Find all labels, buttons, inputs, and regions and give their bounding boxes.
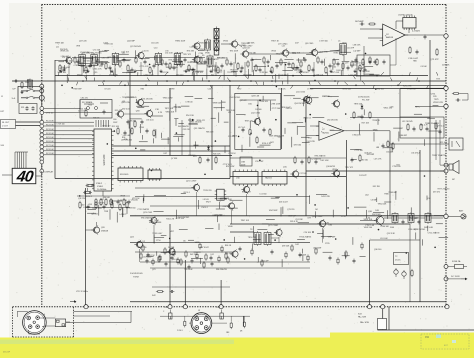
label scatter 211 (384, 194, 389, 196)
label bm11 (341, 216, 346, 218)
label scatter 106 (271, 104, 281, 106)
svg-text:C94 2SC945: C94 2SC945 (229, 97, 240, 99)
resistor BB25 (173, 250, 175, 257)
capacitor chain C148 (304, 58, 307, 63)
junction dot 247 (309, 114, 311, 116)
label t8 (250, 229, 253, 231)
resistor R72 (131, 127, 133, 135)
label scatter 127 (397, 165, 400, 167)
svg-text:CT85: CT85 (325, 243, 330, 245)
diode D4 (361, 104, 364, 110)
label q28 (288, 216, 323, 219)
svg-text:L43 472: L43 472 (120, 214, 127, 216)
svg-text:C60: C60 (113, 119, 116, 121)
wire seg 137 (284, 128, 286, 134)
svg-text:PA+ S/W: PA+ S/W (360, 321, 370, 324)
label scatter 147 (321, 196, 330, 198)
label scatter 188 (299, 236, 311, 239)
svg-text:Q8 C945: Q8 C945 (305, 43, 314, 45)
label scatter 42 (333, 67, 336, 69)
svg-text:R57 10K: R57 10K (362, 123, 370, 125)
wire seg 65 (99, 50, 107, 52)
wire y240 right (370, 239, 421, 241)
label scatter 79 (228, 112, 231, 114)
wire seg 2 (214, 65, 216, 73)
capacitor C44 (301, 160, 304, 165)
label chain b7 (176, 75, 183, 77)
junction dot 277 (176, 132, 178, 134)
svg-text:L51 560: L51 560 (260, 194, 267, 196)
wire seg 141 (306, 97, 319, 99)
svg-text:C106: C106 (164, 307, 168, 309)
wire seg 217 (410, 207, 412, 215)
wire seg 34 (231, 70, 238, 72)
label scatter 123 (345, 167, 353, 169)
svg-text:VR53: VR53 (271, 51, 276, 53)
wire nb top (240, 100, 276, 117)
wire drop x285 (284, 62, 286, 76)
filter CSB455E (240, 157, 252, 167)
label bm6 (248, 237, 257, 239)
wire seg 122 (312, 116, 324, 118)
transistor Q2 MIX (136, 51, 144, 60)
label scatter 113 (308, 137, 312, 139)
label chain b16 (331, 72, 339, 74)
svg-text:VR45: VR45 (223, 41, 229, 43)
wire seg 3 (252, 70, 254, 76)
label chain t10 (295, 43, 300, 45)
wire vert x170a (169, 88, 171, 156)
wire seg 152 (268, 233, 274, 235)
capacitor chain C110 (109, 66, 112, 71)
label chain b14 (296, 72, 308, 74)
junction dot 246 (434, 247, 436, 249)
svg-text:D14 KD51005: D14 KD51005 (130, 273, 143, 275)
svg-text:VR94 472: VR94 472 (196, 120, 204, 122)
wire vert x346 (346, 140, 348, 216)
label scatter 26 (202, 55, 204, 57)
label scatter 151 (147, 255, 155, 257)
label scatter 139 (81, 204, 84, 206)
svg-text:D11 472: D11 472 (115, 110, 122, 112)
label scatter 13 (230, 69, 239, 71)
wire seg 78 (324, 59, 326, 66)
junction dot 256 (303, 57, 305, 59)
wire af bus (230, 232, 279, 238)
svg-text:C38 472: C38 472 (98, 203, 105, 205)
label scatter 185 (178, 217, 189, 219)
label q13 parts (322, 96, 330, 98)
label scatter 87 (115, 110, 122, 112)
label q30 (368, 211, 382, 216)
capacitor BB4 (165, 262, 168, 267)
label hic (425, 122, 447, 157)
wire seg 107 (160, 133, 162, 138)
wire seg 155 (275, 196, 280, 198)
label scatter 206 (390, 106, 393, 108)
wire seg 108 (194, 144, 199, 146)
wire seg 10 (369, 74, 379, 76)
wire seg 163 (156, 251, 158, 256)
switch S1a (21, 89, 42, 92)
svg-text:XTAL1: XTAL1 (97, 185, 104, 188)
wire RC7 (44, 145, 94, 147)
label scatter 190 (372, 120, 380, 122)
svg-text:L9 103: L9 103 (203, 199, 209, 201)
wire selector stem (41, 86, 43, 171)
svg-text:D24 0.047: D24 0.047 (279, 202, 288, 204)
svg-text:C24 0.1: C24 0.1 (85, 196, 92, 198)
wire seg 118 (284, 95, 295, 97)
resistor B24 (345, 250, 347, 258)
svg-text:Q21 C1959: Q21 C1959 (186, 181, 197, 183)
wire seg 224 (376, 197, 378, 202)
wire bus y224 (230, 223, 410, 225)
wire vert x170b (169, 224, 171, 307)
label Q8 (305, 43, 314, 45)
svg-text:L OUT: L OUT (2, 126, 9, 128)
svg-text:Q30 100: Q30 100 (374, 249, 381, 251)
label scatter 126 (386, 152, 393, 154)
label scatter 98 (121, 102, 130, 104)
svg-text:DET AMP: DET AMP (355, 20, 364, 23)
svg-text:C38: C38 (390, 106, 393, 108)
label scatter 99 (185, 102, 192, 104)
junction dot 248 (314, 204, 316, 206)
label bm2 (170, 231, 174, 233)
wire seg 14 (342, 61, 350, 63)
wire drop x69 (68, 62, 70, 76)
wire seg 48 (284, 59, 293, 61)
svg-text:C82 220: C82 220 (81, 97, 88, 99)
svg-text:d: d (44, 101, 45, 103)
svg-text:Q2 2SC945: Q2 2SC945 (130, 46, 142, 48)
svg-text:L50 0.047: L50 0.047 (143, 257, 151, 259)
resistor chain R111 (119, 60, 121, 68)
svg-text:D42 220: D42 220 (190, 254, 197, 256)
svg-text:TR69 68P: TR69 68P (388, 192, 397, 194)
label U13 (398, 15, 413, 17)
wire seg 115 (174, 118, 178, 120)
label scatter 192 (420, 124, 428, 126)
svg-text:CT20 100: CT20 100 (138, 247, 146, 249)
wire y206 seg (150, 205, 228, 207)
svg-text:C88 47P: C88 47P (128, 121, 136, 123)
switch PR box (378, 319, 387, 330)
wire seg 207 (393, 127, 402, 129)
svg-text:Q47 220: Q47 220 (79, 41, 88, 43)
svg-text:2SB528: 2SB528 (101, 231, 109, 233)
wire seg 170 (315, 211, 317, 218)
wire seg 194 (176, 210, 178, 219)
label scatter 158 (183, 192, 190, 194)
svg-text:ANT: ANT (459, 210, 464, 213)
svg-text:VR96 10K: VR96 10K (342, 89, 351, 91)
wire nlout (16, 122, 42, 126)
junction dot 264 (215, 140, 217, 142)
svg-text:2.2/6.3: 2.2/6.3 (177, 330, 183, 332)
wire mic out1 (74, 311, 133, 313)
resistor R58 (387, 140, 389, 148)
wire seg 219 (384, 201, 391, 203)
transistor Q13 (304, 96, 312, 105)
wire bus y151 (112, 150, 230, 152)
label scatter 48 (187, 69, 195, 71)
resistor R45 (308, 156, 310, 164)
wire seg 97 (155, 129, 157, 138)
wire seg 116 (195, 141, 197, 148)
label scatter 10 (80, 52, 90, 54)
capacitor chain C116 (144, 60, 147, 65)
wire seg 52 (135, 50, 137, 59)
svg-text:CT63 33K: CT63 33K (360, 71, 370, 73)
label Q1 (56, 47, 68, 52)
node J1 row1 (18, 86, 42, 103)
label scatter 23 (183, 54, 191, 56)
label scatter 56 (190, 61, 197, 63)
svg-text:Q59 472: Q59 472 (364, 152, 371, 154)
svg-text:VR29 103: VR29 103 (58, 72, 66, 74)
resistor B217 (285, 251, 287, 258)
label scatter 238 (223, 164, 232, 166)
wire main bus y76 (55, 75, 428, 77)
label BB4 (200, 247, 209, 249)
label scatter 53 (108, 57, 115, 59)
svg-text:D39 10K: D39 10K (282, 246, 290, 248)
wire vco out (144, 88, 170, 103)
svg-text:C4: C4 (116, 58, 118, 60)
label scatter 43 (187, 62, 196, 64)
wire seg 57 (98, 61, 110, 63)
svg-text:VR93 1/2W: VR93 1/2W (433, 102, 443, 104)
svg-text:Q23 C945: Q23 C945 (143, 212, 153, 214)
label scatter 171 (143, 241, 145, 243)
contact CH4 (40, 124, 44, 128)
transistor Q30 PA (374, 215, 384, 226)
wire seg 4 (84, 69, 88, 71)
label scatter 152 (201, 207, 208, 209)
svg-text:D49 10K: D49 10K (270, 135, 278, 137)
label chain m4 (143, 51, 150, 53)
label scatter 186 (143, 257, 151, 259)
wire seg 234 (116, 212, 118, 223)
wire seg 126 (257, 146, 264, 148)
resistor chain R103 (74, 56, 76, 64)
contact CH13 (40, 160, 44, 164)
capacitor chain C114 (131, 68, 134, 73)
svg-text:VR3 1/2W: VR3 1/2W (109, 75, 118, 77)
svg-text:RC2 10K: RC2 10K (46, 124, 54, 126)
wire seg 114 (167, 137, 169, 144)
wire seg 72 (96, 60, 108, 62)
label scatter 84 (226, 110, 236, 112)
svg-text:L38 3.3K: L38 3.3K (353, 44, 361, 46)
capacitor C70 (127, 120, 130, 125)
contact CH11 (40, 153, 44, 157)
ground chain g3 (133, 70, 136, 73)
label scatter 31 (99, 66, 103, 68)
label BB5 (216, 268, 227, 271)
transistor Q21 (191, 183, 199, 192)
resistor B25 (177, 257, 179, 264)
label scatter 189 (400, 135, 408, 137)
resistor chain R155 (333, 58, 335, 66)
wire vco link (124, 113, 146, 115)
switch RF-GAIN cluster (80, 100, 112, 119)
svg-text:VR35 10K: VR35 10K (166, 112, 175, 114)
wire seg 173 (179, 229, 188, 231)
transistor Q1 RF AMP (64, 56, 72, 65)
junction dot 242 (151, 170, 153, 172)
svg-text:D5 10K: D5 10K (168, 247, 175, 249)
wire seg 228 (439, 236, 449, 238)
resistor R53 (369, 111, 371, 119)
wire vert x230 (229, 85, 231, 178)
svg-text:150P: 150P (113, 122, 118, 124)
svg-text:L22 3.3K: L22 3.3K (349, 75, 357, 77)
wire seg 218 (386, 210, 388, 219)
svg-text:S12 NB/ANL: S12 NB/ANL (82, 101, 93, 104)
wire seg 156 (154, 236, 164, 238)
svg-text:XTAL2: XTAL2 (96, 182, 103, 185)
wire seg 17 (91, 56, 93, 60)
wire ch up2 (44, 112, 112, 114)
label chain b5 (144, 75, 154, 77)
label scatter 135 (91, 213, 97, 215)
svg-text:CT58 100: CT58 100 (392, 166, 400, 168)
connector J2 MIC (23, 311, 47, 335)
resistor B223 (337, 257, 339, 264)
resistor chain R145 (292, 62, 294, 70)
junction dot 255 (275, 119, 277, 121)
wire seg 208 (427, 117, 435, 119)
resistor feedback box (357, 55, 390, 76)
wire seg 5 (364, 73, 374, 75)
capacitor C97 (402, 220, 405, 225)
resistor R65 (123, 198, 125, 206)
wire seg 235 (112, 200, 114, 206)
svg-text:R96 15K: R96 15K (377, 89, 385, 91)
capacitor C91 (416, 50, 419, 55)
svg-text:Q79 0.1: Q79 0.1 (437, 126, 444, 128)
svg-text:Q50 2SC945: Q50 2SC945 (327, 119, 338, 121)
label box (402, 121, 413, 123)
capacitor S42b (170, 290, 175, 293)
svg-text:Q92 3.3K: Q92 3.3K (387, 233, 396, 235)
transistor Q18 (115, 109, 123, 118)
svg-text:D49: D49 (375, 210, 378, 212)
svg-text:TR89 10K: TR89 10K (55, 43, 65, 45)
label scatter 109 (251, 96, 260, 98)
capacitor chain C106 (89, 64, 92, 69)
wire bus stubs (59, 72, 438, 89)
label scatter 30 (93, 69, 103, 71)
label scatter 114 (294, 144, 301, 146)
capacitor B13 (239, 247, 242, 252)
label scatter 179 (225, 199, 233, 201)
wire seg 26 (172, 60, 180, 62)
wire seg 145 (271, 197, 279, 199)
wire seg 13 (356, 71, 358, 77)
svg-text:TR75 33K: TR75 33K (247, 53, 256, 55)
wire seg 174 (322, 229, 324, 238)
label scatter 67 (122, 101, 125, 103)
svg-text:TR37 220: TR37 220 (245, 121, 253, 123)
wire seg 40 (275, 74, 277, 82)
wire seg 111 (178, 122, 183, 124)
capacitor chain C120 (165, 62, 168, 67)
resistor R108 (243, 320, 245, 328)
pin J2-2 (36, 316, 40, 320)
label scatter 231 (420, 66, 427, 68)
label scatter 117 (272, 108, 280, 110)
transformer L9 LPF (425, 212, 431, 224)
wire seg 138 (296, 126, 298, 135)
wire bus y216 (130, 215, 446, 217)
label scatter 41 (241, 43, 249, 45)
resistor R63 (105, 198, 107, 206)
wire seg 8 (194, 70, 204, 72)
label scatter 69 (93, 117, 100, 119)
capacitor chain C126 (192, 68, 195, 73)
capacitor C101 elec (394, 268, 398, 277)
svg-text:S.M: S.M (1, 145, 5, 147)
label chain t8 (247, 43, 255, 45)
capacitor C79 (87, 205, 90, 210)
wire chain signal b (145, 57, 205, 59)
wire seg 98 (128, 123, 130, 128)
svg-text:CT64: CT64 (139, 127, 144, 129)
svg-text:TR44 15K: TR44 15K (230, 69, 239, 71)
transistor Q28 (317, 219, 325, 228)
svg-text:R25 103: R25 103 (440, 142, 447, 144)
wire RC5 (44, 137, 94, 139)
wire seg 91 (195, 98, 203, 100)
crystal XTAL2 (86, 182, 103, 187)
junction border y98 (39, 95, 44, 100)
wire seg 198 (146, 255, 153, 257)
contact CH5 (40, 129, 44, 133)
label scatter 28 (219, 72, 222, 74)
svg-text:D90 220: D90 220 (218, 57, 225, 59)
capacitor chain C150 (312, 68, 315, 73)
label scatter 94 (206, 132, 213, 134)
label lm1 (1, 96, 4, 98)
label mid left parts (78, 198, 128, 202)
label NL OUT box (1, 120, 16, 129)
junction dot 262 (244, 258, 246, 260)
svg-text:4B 24F: 4B 24F (3, 352, 11, 354)
svg-text:C78: C78 (325, 223, 328, 225)
wire seg 120 (292, 122, 303, 124)
capacitor chain C118 (153, 64, 156, 69)
label chain t3 (127, 41, 136, 43)
junction bottom x369 (367, 305, 371, 309)
label scatter 228 (433, 102, 443, 104)
resistor chain R115 (135, 56, 137, 64)
label chain m3 (122, 53, 125, 55)
wire ic1 gnd bus (86, 207, 131, 209)
wire seg 215 (414, 113, 422, 115)
label scatter 120 (286, 108, 292, 110)
svg-text:RC1 10K: RC1 10K (46, 121, 54, 123)
junction dot 260 (296, 194, 298, 196)
label lm2 (1, 145, 5, 147)
ground chain g0 (59, 70, 62, 73)
svg-text:TR41 33K: TR41 33K (79, 109, 88, 111)
wire seg 167 (198, 200, 200, 209)
label scatter 240 (193, 156, 196, 158)
